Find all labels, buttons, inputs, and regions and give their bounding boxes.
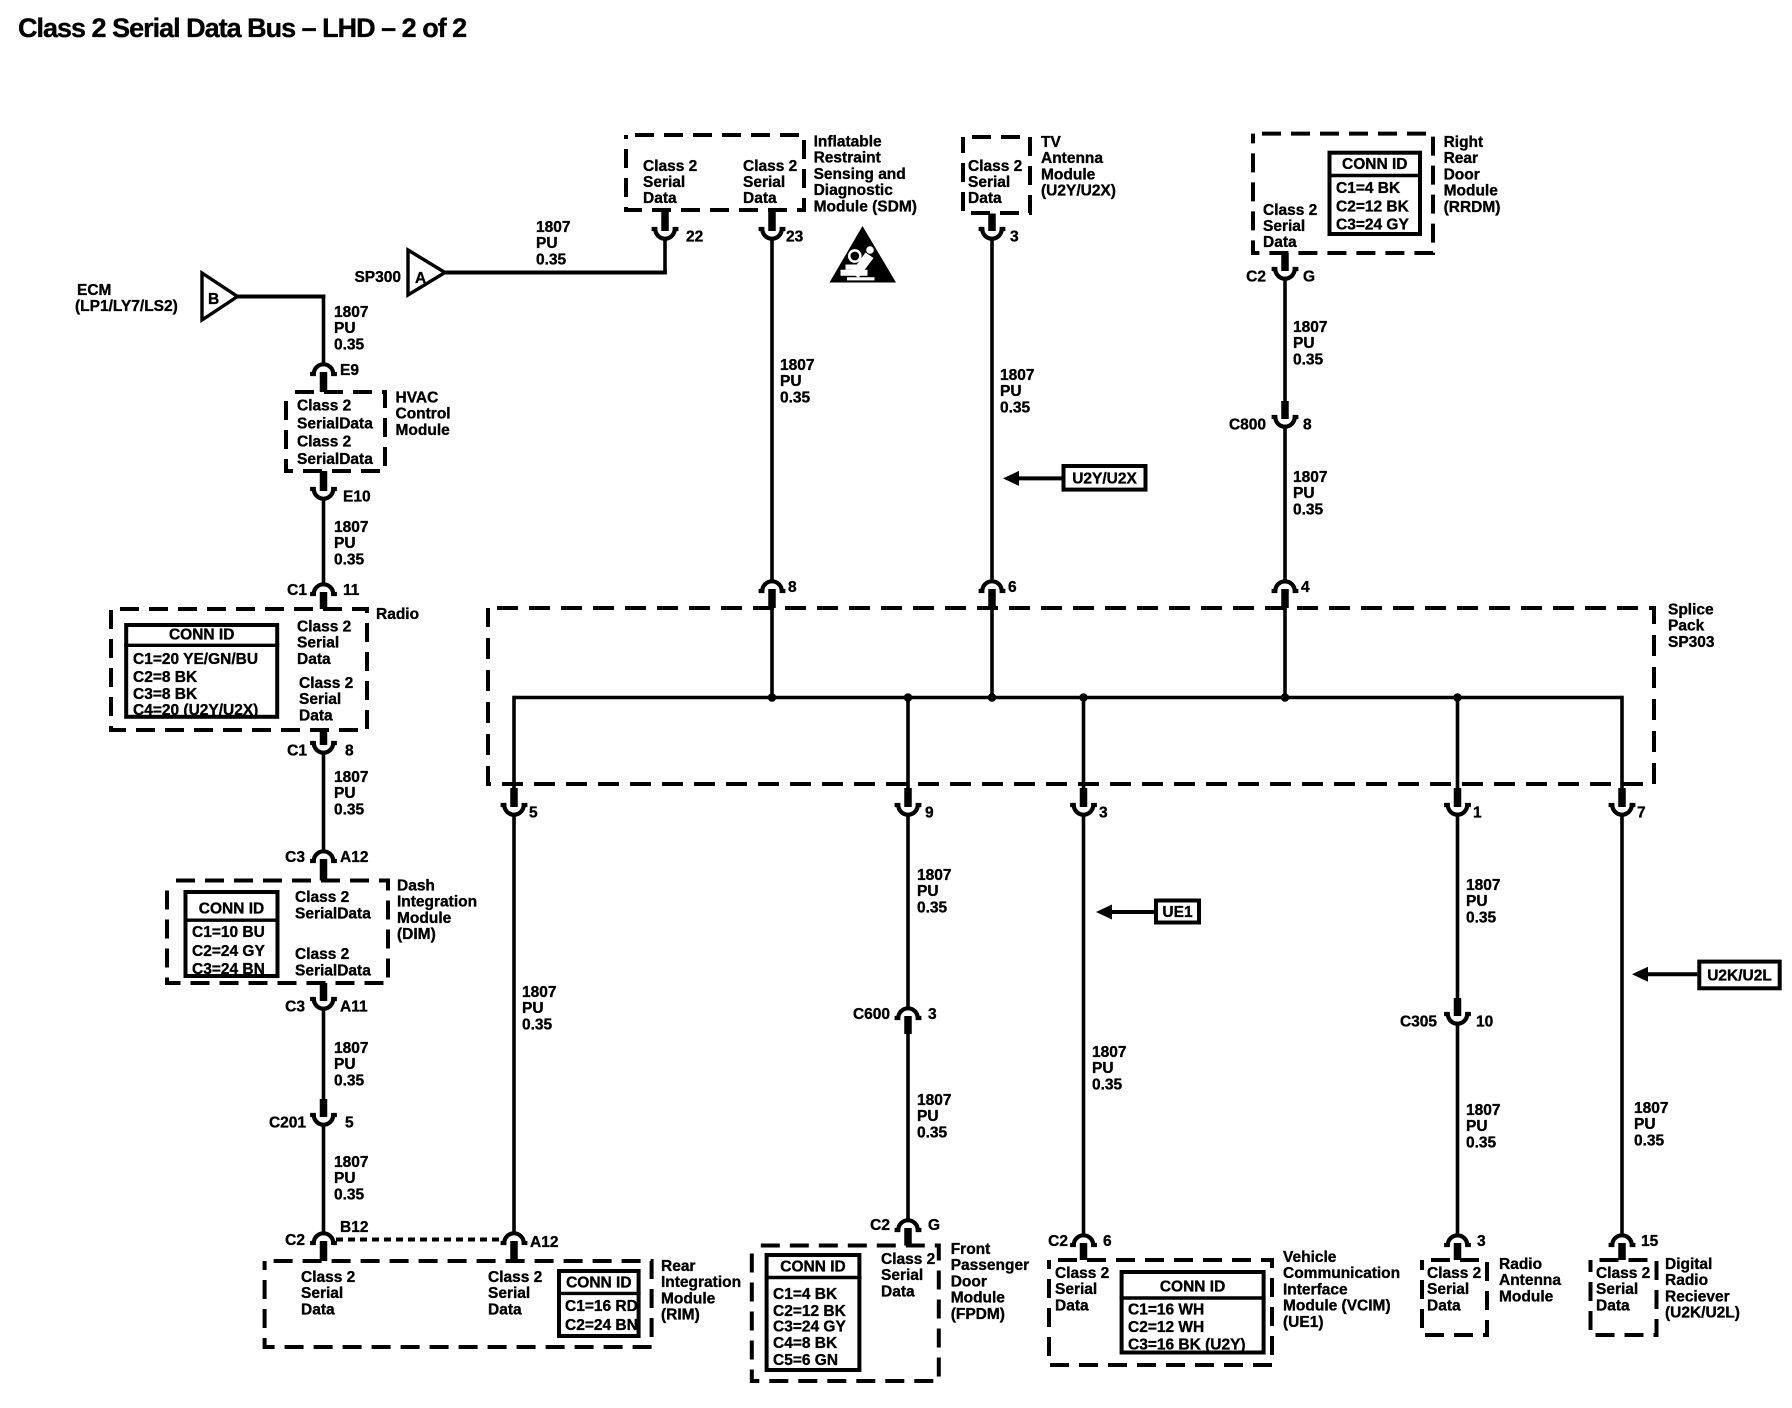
svg-text:1807: 1807 [522, 984, 556, 1001]
svg-text:(U2K/U2L): (U2K/U2L) [1665, 1305, 1740, 1322]
module Digital Radio Reciever (U2K/U2L) [1591, 1256, 1740, 1335]
wire SDM pin23 to splice pin8 [770, 239, 774, 581]
svg-text:3: 3 [1099, 805, 1108, 822]
svg-text:1807: 1807 [334, 1154, 368, 1171]
wire bus drop to pin5 [512, 696, 516, 789]
svg-text:0.35: 0.35 [334, 1186, 365, 1203]
connector C305 pin 10 [1400, 998, 1493, 1031]
svg-text:CONN ID: CONN ID [199, 901, 264, 918]
wire C201 to C2-B12 [322, 1125, 326, 1233]
svg-text:C2: C2 [870, 1217, 890, 1234]
svg-text:B: B [208, 291, 219, 308]
connector C600 pin 3 [853, 1006, 937, 1034]
svg-text:Class 2: Class 2 [881, 1251, 935, 1268]
svg-text:6: 6 [1008, 579, 1017, 596]
svg-text:ECM: ECM [77, 282, 111, 299]
svg-text:PU: PU [1466, 893, 1488, 910]
svg-text:Restraint: Restraint [814, 150, 881, 167]
wire bus drop to pin1 [1456, 698, 1460, 790]
svg-text:PU: PU [1634, 1116, 1656, 1133]
svg-text:(U2Y/U2X): (U2Y/U2X) [1041, 183, 1116, 200]
svg-text:PU: PU [917, 883, 939, 900]
wire label 1807 PU 0.35 (pin7 wire) [1634, 1100, 1668, 1149]
module RRDM (Right Rear Door Module) [1253, 134, 1500, 253]
svg-text:C2=24 BN: C2=24 BN [565, 1317, 638, 1334]
svg-text:Dash: Dash [397, 878, 435, 895]
svg-text:7: 7 [1637, 805, 1646, 822]
svg-text:Passenger: Passenger [951, 1257, 1029, 1274]
svg-text:5: 5 [345, 1115, 354, 1132]
svg-text:1807: 1807 [917, 1092, 951, 1109]
svg-text:Module: Module [951, 1290, 1006, 1307]
svg-text:Module: Module [1041, 166, 1096, 183]
svg-text:C1=16 WH: C1=16 WH [1128, 1302, 1204, 1319]
svg-text:0.35: 0.35 [334, 551, 365, 568]
svg-text:SerialData: SerialData [295, 962, 371, 979]
svg-text:0.35: 0.35 [917, 899, 948, 916]
wire E10 to C1-11 [322, 499, 326, 584]
svg-text:C600: C600 [853, 1006, 890, 1023]
wire label 1807 PU 0.35 (B wire) [334, 304, 368, 353]
svg-text:Data: Data [1263, 234, 1297, 251]
svg-text:1807: 1807 [536, 219, 570, 236]
wire SP300-A to SDM pin22 [443, 239, 667, 274]
svg-text:C3=16 BK (U2Y): C3=16 BK (U2Y) [1128, 1337, 1246, 1354]
wire label 1807 PU 0.35 (pin5 wire) [522, 984, 556, 1033]
svg-text:Communication: Communication [1283, 1265, 1400, 1282]
connector FPDM C2 pin G [870, 1217, 940, 1246]
svg-text:Class 2: Class 2 [297, 398, 351, 415]
wire C800 to splice pin4 [1283, 427, 1287, 581]
svg-text:10: 10 [1476, 1014, 1493, 1031]
junction dot pin9 [904, 693, 913, 702]
wire label 1807 PU 0.35 (C1-8 wire) [334, 769, 368, 818]
svg-text:C2=24 GY: C2=24 GY [192, 943, 265, 960]
svg-text:Module: Module [1444, 183, 1499, 200]
svg-text:0.35: 0.35 [1293, 351, 1324, 368]
svg-text:PU: PU [334, 320, 356, 337]
wire C3-A11 to C201 [322, 1007, 326, 1099]
svg-text:0.35: 0.35 [1466, 1134, 1497, 1151]
wire splice pin3 to VCIM [1082, 813, 1086, 1235]
svg-text:Module: Module [397, 910, 452, 927]
wire bus drop to pin7 [1620, 696, 1624, 789]
svg-text:Data: Data [301, 1301, 335, 1318]
svg-text:0.35: 0.35 [522, 1016, 553, 1033]
svg-text:(DIM): (DIM) [397, 926, 436, 943]
wire splice bus [514, 696, 1622, 700]
svg-text:Class 2: Class 2 [1263, 202, 1317, 219]
svg-text:Serial: Serial [1596, 1281, 1638, 1298]
svg-text:PU: PU [334, 535, 356, 552]
svg-text:C3=24 GY: C3=24 GY [1336, 217, 1409, 234]
connector splice pin 3 [1070, 788, 1108, 822]
svg-text:PU: PU [1293, 485, 1315, 502]
svg-text:1807: 1807 [917, 867, 951, 884]
svg-text:C3=8 BK: C3=8 BK [133, 686, 198, 703]
connector splice pin 9 [895, 788, 934, 822]
connector splice pin 7 [1609, 788, 1646, 822]
svg-text:Diagnostic: Diagnostic [814, 182, 894, 199]
svg-text:C1: C1 [287, 743, 307, 760]
svg-text:Data: Data [968, 190, 1002, 207]
svg-text:C1=20 YE/GN/BU: C1=20 YE/GN/BU [133, 651, 258, 668]
connector digital radio pin 15 [1609, 1233, 1659, 1260]
wire label 1807 PU 0.35 (A wire) [536, 219, 570, 268]
svg-text:Serial: Serial [299, 691, 341, 708]
connector radio antenna pin 3 [1444, 1233, 1486, 1260]
svg-text:CONN ID: CONN ID [1342, 156, 1407, 173]
svg-text:PU: PU [780, 373, 802, 390]
svg-text:C3=24 GY: C3=24 GY [773, 1319, 846, 1336]
wire bus drop to pin3 [1082, 698, 1086, 790]
junction dot pin4 [1281, 693, 1290, 702]
svg-text:Data: Data [1596, 1297, 1630, 1314]
svg-text:Antenna: Antenna [1499, 1272, 1561, 1289]
svg-text:0.35: 0.35 [1293, 501, 1324, 518]
svg-text:1807: 1807 [1466, 877, 1500, 894]
svg-text:Module: Module [396, 422, 451, 439]
connector C3 pin A11 [285, 983, 368, 1016]
svg-text:8: 8 [1303, 417, 1312, 434]
wire label 1807 PU 0.35 (E10 wire) [334, 519, 368, 568]
svg-text:CONN ID: CONN ID [566, 1275, 631, 1292]
svg-text:1807: 1807 [1293, 469, 1327, 486]
svg-text:PU: PU [334, 785, 356, 802]
svg-text:Front: Front [951, 1241, 991, 1258]
svg-text:Class 2: Class 2 [297, 433, 351, 450]
wire label 1807 PU 0.35 (pin9 lower) [917, 1092, 951, 1141]
svg-text:SP300: SP300 [354, 269, 401, 286]
junction dot pin3 [1079, 693, 1088, 702]
module TV Antenna (U2Y/U2X) [963, 134, 1116, 213]
svg-text:A11: A11 [340, 999, 368, 1016]
module HVAC Control Module [286, 390, 451, 472]
wire C1-8 to C3-A12 [322, 751, 326, 851]
svg-text:Data: Data [881, 1283, 915, 1300]
connector splice pin 8 [759, 579, 797, 608]
callout U2K/U2L [1632, 962, 1780, 989]
connector C2 pin B12 [285, 1219, 368, 1261]
svg-text:PU: PU [334, 1056, 356, 1073]
svg-text:C1: C1 [287, 582, 307, 599]
svg-text:C3: C3 [285, 849, 305, 866]
svg-text:Data: Data [297, 651, 331, 668]
svg-text:Antenna: Antenna [1041, 150, 1103, 167]
wire label 1807 PU 0.35 (pin9 upper) [917, 867, 951, 916]
wire label 1807 PU 0.35 (TV wire) [1000, 367, 1034, 416]
connector C201 pin 5 [269, 1099, 354, 1132]
svg-text:(RRDM): (RRDM) [1444, 199, 1501, 216]
svg-text:5: 5 [529, 805, 538, 822]
svg-text:Serial: Serial [968, 174, 1010, 191]
svg-text:C2=8 BK: C2=8 BK [133, 669, 198, 686]
wire splice pin5 to RIM A12 [512, 813, 516, 1233]
svg-text:0.35: 0.35 [1000, 399, 1031, 416]
wire label 1807 PU 0.35 (RRDM lower) [1293, 469, 1327, 518]
svg-text:TV: TV [1041, 134, 1061, 151]
svg-text:C4=20 (U2Y/U2X): C4=20 (U2Y/U2X) [133, 702, 258, 719]
airbag warning symbol [830, 226, 897, 283]
svg-text:A: A [415, 270, 426, 287]
wire RRDM to C800 [1283, 279, 1287, 401]
junction dot pin6 [988, 693, 997, 702]
svg-text:0.35: 0.35 [1092, 1076, 1123, 1093]
svg-text:E10: E10 [343, 489, 371, 506]
svg-text:Class 2: Class 2 [297, 618, 351, 635]
connector splice pin 1 [1444, 788, 1482, 822]
svg-text:PU: PU [334, 1170, 356, 1187]
svg-text:Module: Module [1499, 1288, 1554, 1305]
svg-text:SerialData: SerialData [295, 905, 371, 922]
svg-text:Class 2: Class 2 [968, 158, 1022, 175]
svg-text:Rear: Rear [661, 1258, 695, 1275]
svg-text:Integration: Integration [661, 1274, 741, 1291]
connector C3 pin A12 [285, 849, 368, 881]
svg-text:C305: C305 [1400, 1014, 1437, 1031]
wire C600 to FPDM [906, 1032, 910, 1220]
svg-text:(LP1/LY7/LS2): (LP1/LY7/LS2) [75, 298, 178, 315]
svg-text:Data: Data [1427, 1297, 1461, 1314]
svg-text:Class 2: Class 2 [1055, 1265, 1109, 1282]
svg-text:Serial: Serial [643, 174, 685, 191]
svg-text:C2: C2 [285, 1232, 305, 1249]
svg-text:Serial: Serial [743, 174, 785, 191]
svg-text:C2: C2 [1048, 1233, 1068, 1250]
svg-text:0.35: 0.35 [334, 1072, 365, 1089]
connector RRDM C2 pin G [1246, 253, 1315, 286]
wire label 1807 PU 0.35 (pin3 wire) [1092, 1044, 1126, 1093]
svg-text:3: 3 [928, 1006, 937, 1023]
svg-text:8: 8 [788, 579, 797, 596]
svg-text:1807: 1807 [334, 769, 368, 786]
svg-text:0.35: 0.35 [917, 1124, 948, 1141]
svg-text:C1=16 RD: C1=16 RD [565, 1298, 638, 1315]
module SDM (Inflatable Restraint Sensing and Diagnostic Module) [626, 134, 917, 216]
svg-text:Class 2: Class 2 [743, 158, 797, 175]
svg-text:4: 4 [1301, 579, 1310, 596]
connector splice pin 6 [979, 579, 1017, 608]
svg-text:Class 2: Class 2 [301, 1269, 355, 1286]
svg-text:Door: Door [951, 1273, 987, 1290]
module Radio [111, 606, 419, 730]
svg-text:C2=12 BK: C2=12 BK [1336, 199, 1410, 216]
svg-text:Rear: Rear [1444, 150, 1478, 167]
connector SDM pin 23 [759, 210, 804, 246]
wire splice pin8 to bus [770, 608, 774, 699]
junction dot pin1 [1453, 693, 1462, 702]
junction dot pin8 [768, 693, 777, 702]
svg-text:0.35: 0.35 [1466, 909, 1497, 926]
svg-text:0.35: 0.35 [334, 801, 365, 818]
svg-text:U2Y/U2X: U2Y/U2X [1072, 470, 1137, 487]
svg-text:6: 6 [1103, 1233, 1112, 1250]
svg-text:Class 2: Class 2 [1596, 1265, 1650, 1282]
svg-text:Reciever: Reciever [1665, 1288, 1730, 1305]
svg-text:UE1: UE1 [1162, 904, 1193, 921]
wire splice pin6 to bus [990, 608, 994, 699]
svg-text:Data: Data [1055, 1297, 1089, 1314]
svg-text:Class 2: Class 2 [295, 889, 349, 906]
svg-text:SerialData: SerialData [297, 415, 373, 432]
svg-text:HVAC: HVAC [396, 390, 439, 407]
svg-text:23: 23 [786, 229, 804, 246]
connector C1 pin 11 [287, 582, 360, 609]
svg-text:9: 9 [925, 805, 934, 822]
svg-text:PU: PU [522, 1000, 544, 1017]
svg-text:Class 2: Class 2 [299, 675, 353, 692]
svg-text:C4=8 BK: C4=8 BK [773, 1335, 838, 1352]
wire ECM-B to HVAC [238, 295, 326, 364]
svg-text:PU: PU [1466, 1118, 1488, 1135]
svg-text:1807: 1807 [1466, 1102, 1500, 1119]
svg-text:3: 3 [1477, 1233, 1486, 1250]
svg-text:Splice: Splice [1668, 602, 1714, 619]
svg-text:Class 2: Class 2 [488, 1269, 542, 1286]
svg-text:Door: Door [1444, 166, 1480, 183]
svg-text:Class 2: Class 2 [1427, 1265, 1481, 1282]
svg-text:15: 15 [1641, 1233, 1659, 1250]
svg-text:Digital: Digital [1665, 1256, 1712, 1273]
svg-text:Vehicle: Vehicle [1283, 1249, 1337, 1266]
module DIM (Dash Integration Module) [167, 878, 477, 984]
svg-text:Integration: Integration [397, 894, 477, 911]
svg-text:Serial: Serial [881, 1267, 923, 1284]
svg-text:Radio: Radio [376, 606, 419, 623]
svg-text:SP303: SP303 [1668, 634, 1715, 651]
svg-text:C2=12 WH: C2=12 WH [1128, 1319, 1204, 1336]
svg-text:0.35: 0.35 [536, 251, 567, 268]
svg-text:0.35: 0.35 [780, 389, 811, 406]
svg-text:1807: 1807 [1092, 1044, 1126, 1061]
wire dotted link B12-A12 [336, 1238, 501, 1242]
module RIM (Rear Integration Module) [265, 1258, 741, 1347]
svg-text:CONN ID: CONN ID [169, 627, 234, 644]
svg-text:G: G [1303, 269, 1315, 286]
svg-text:Data: Data [743, 190, 777, 207]
svg-text:1807: 1807 [334, 304, 368, 321]
title [18, 13, 466, 43]
svg-text:C1=4 BK: C1=4 BK [773, 1286, 838, 1303]
svg-text:C2=12 BK: C2=12 BK [773, 1303, 847, 1320]
wire splice pin9 to C600 [906, 813, 910, 1008]
connector VCIM C2 pin 6 [1048, 1233, 1112, 1260]
svg-text:1807: 1807 [1634, 1100, 1668, 1117]
svg-text:3: 3 [1010, 229, 1019, 246]
svg-text:Data: Data [488, 1301, 522, 1318]
wire C305 to radio antenna module [1456, 1022, 1460, 1235]
svg-text:CONN ID: CONN ID [780, 1259, 845, 1276]
wire splice pin4 to bus [1283, 608, 1287, 699]
svg-text:Serial: Serial [488, 1285, 530, 1302]
svg-text:C2: C2 [1246, 269, 1266, 286]
connector E10 [310, 471, 370, 506]
svg-text:PU: PU [1293, 335, 1315, 352]
callout UE1 [1096, 901, 1199, 923]
callout U2Y/U2X [1003, 466, 1146, 490]
svg-text:Pack: Pack [1668, 618, 1705, 635]
svg-text:Class 2: Class 2 [643, 158, 697, 175]
wire splice pin1 to C305 [1456, 813, 1460, 998]
svg-text:0.35: 0.35 [1634, 1132, 1665, 1149]
svg-text:A12: A12 [340, 849, 368, 866]
svg-text:Data: Data [299, 707, 333, 724]
svg-text:PU: PU [917, 1108, 939, 1125]
svg-text:Class 2 Serial Data Bus – LHD: Class 2 Serial Data Bus – LHD – 2 of 2 [18, 13, 466, 43]
svg-text:22: 22 [686, 229, 703, 246]
svg-text:CONN ID: CONN ID [1160, 1279, 1225, 1296]
svg-text:C201: C201 [269, 1115, 306, 1132]
connector C1 pin 8 [287, 730, 354, 760]
wire label 1807 PU 0.35 (pin1 upper) [1466, 877, 1500, 926]
svg-text:1807: 1807 [334, 1040, 368, 1057]
connector TV pin 3 [979, 214, 1019, 246]
module VCIM (Vehicle Communication Interface Module UE1) [1049, 1249, 1400, 1365]
node A (splice SP300) [354, 250, 445, 295]
connector E9 [310, 362, 359, 392]
wire bus drop to pin9 [906, 698, 910, 790]
node B (ECM LP1/LY7/LS2) [75, 273, 238, 320]
svg-text:G: G [928, 1217, 940, 1234]
svg-text:Module (SDM): Module (SDM) [814, 198, 917, 215]
svg-text:(FPDM): (FPDM) [951, 1306, 1005, 1323]
svg-text:C1=10 BU: C1=10 BU [192, 924, 265, 941]
connector splice pin 5 [501, 788, 538, 822]
svg-text:Serial: Serial [301, 1285, 343, 1302]
svg-text:11: 11 [343, 582, 360, 599]
svg-text:C5=6 GN: C5=6 GN [773, 1352, 838, 1369]
svg-text:Radio: Radio [1499, 1256, 1542, 1273]
svg-text:PU: PU [1000, 383, 1022, 400]
svg-text:0.35: 0.35 [334, 336, 365, 353]
svg-text:1807: 1807 [780, 357, 814, 374]
svg-text:C3=24 BN: C3=24 BN [192, 961, 265, 978]
svg-text:Interface: Interface [1283, 1281, 1348, 1298]
svg-text:PU: PU [1092, 1060, 1114, 1077]
svg-text:C3: C3 [285, 999, 305, 1016]
wire label 1807 PU 0.35 (pin1 lower) [1466, 1102, 1500, 1151]
wire label 1807 PU 0.35 (pin23 wire) [780, 357, 814, 406]
svg-text:Module: Module [661, 1290, 716, 1307]
wire label 1807 PU 0.35 (RRDM upper) [1293, 319, 1327, 368]
svg-text:1807: 1807 [1293, 319, 1327, 336]
svg-text:(RIM): (RIM) [661, 1307, 700, 1324]
svg-text:(UE1): (UE1) [1283, 1314, 1323, 1331]
svg-text:Right: Right [1444, 134, 1484, 151]
svg-text:E9: E9 [340, 362, 359, 379]
svg-text:Module (VCIM): Module (VCIM) [1283, 1298, 1391, 1315]
svg-text:Serial: Serial [297, 635, 339, 652]
connector RIM pin A12 [501, 1233, 559, 1261]
svg-text:Class 2: Class 2 [295, 946, 349, 963]
splice pack SP303 [488, 602, 1715, 785]
svg-text:Radio: Radio [1665, 1272, 1708, 1289]
wire TV pin3 to splice pin6 [990, 239, 994, 581]
svg-text:PU: PU [536, 235, 558, 252]
svg-text:1807: 1807 [1000, 367, 1034, 384]
svg-text:B12: B12 [340, 1219, 368, 1236]
svg-text:A12: A12 [530, 1234, 558, 1251]
svg-text:Serial: Serial [1055, 1281, 1097, 1298]
svg-text:SerialData: SerialData [297, 451, 373, 468]
svg-text:Inflatable: Inflatable [814, 134, 882, 151]
connector C800 pin 8 [1229, 401, 1312, 434]
svg-text:8: 8 [345, 743, 354, 760]
module FPDM (Front Passenger Door Module) [752, 1241, 1029, 1381]
wire splice pin7 to digital radio [1620, 813, 1624, 1235]
module Radio Antenna Module [1422, 1256, 1561, 1335]
svg-text:1: 1 [1473, 805, 1482, 822]
